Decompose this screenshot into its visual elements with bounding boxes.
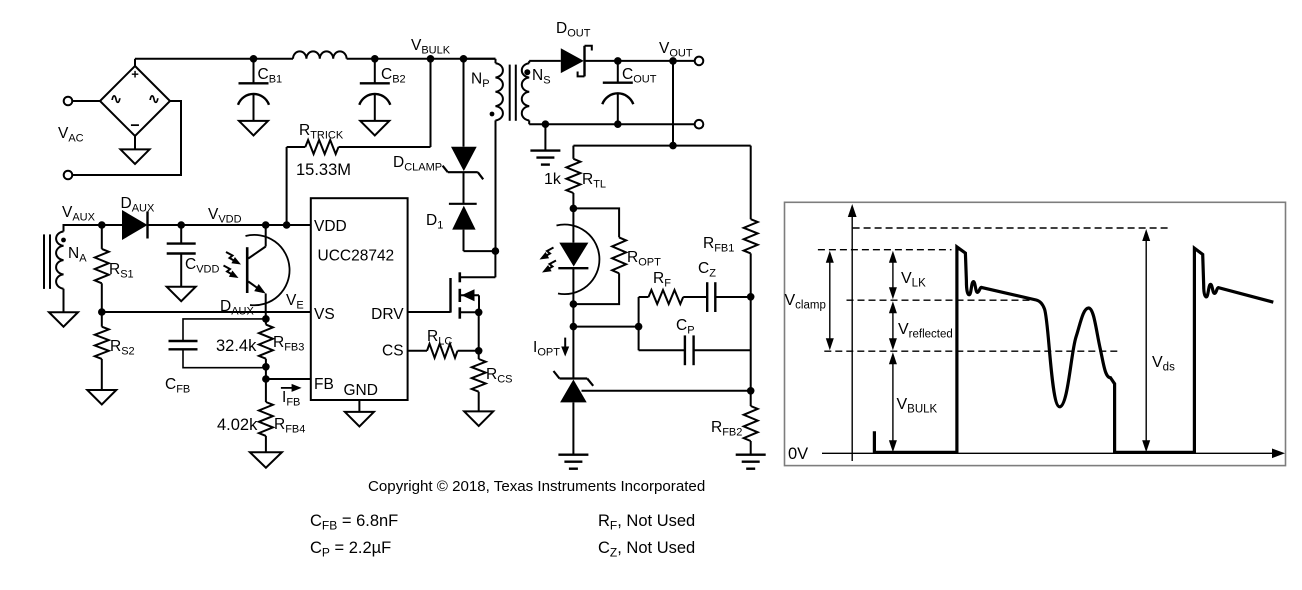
resistor RFB1 [750,146,752,220]
resistor RS2 [101,312,103,327]
arrow IOPT [564,338,566,348]
earth ground shunt [558,454,588,456]
plot x axis [822,452,1273,454]
optocoupler LED DOPT [572,208,574,242]
secondary winding NS [522,63,529,120]
dashed line bulk level [824,350,1118,352]
IC U1 UCC28742 [311,198,408,400]
node VBULK [427,55,435,63]
wire VS rail [102,311,311,313]
aux winding NA [56,232,63,289]
bridge rectifier BR1 [100,66,170,136]
node opto to compensation [570,323,578,331]
phase dot NA [61,238,66,243]
node collector [262,221,270,229]
ground RS2 [87,390,116,405]
wire top rail right [347,58,496,60]
svg-text:FB: FB [314,376,334,393]
aux core [43,234,45,289]
ground GND pin [358,400,360,412]
wire NS top to DOUT [529,60,561,62]
terminal VAC top [64,97,73,106]
ground CB1 [239,121,268,135]
node compensation left [635,323,643,331]
wire VAUX rail [102,224,122,226]
node REF junction [747,387,755,395]
svg-text:1k: 1k [544,171,562,188]
arrow Vclamp [829,259,831,343]
resistor RFB4 [265,379,267,402]
svg-text:CS: CS [382,343,404,360]
wire top rail left [135,58,293,60]
wire bridge to rail [134,59,136,66]
node feedback rail [669,142,677,150]
phototransistor QOPT [265,225,267,247]
node RTL bottom [570,205,578,213]
wire DCLAMP to D1 [463,172,465,204]
wire VOUT down [672,61,674,146]
phototransistor arc [246,235,290,305]
resistor RFB3 [265,319,267,325]
node CZ junction [747,293,755,301]
capacitor CP [639,349,685,351]
capacitor CB2 [371,55,379,63]
wire REF to divider [582,390,751,392]
ground RFB4 [250,452,282,468]
svg-text:0V: 0V [788,445,808,463]
capacitor CB1 [250,55,258,63]
light arrows into QOPT [226,252,237,262]
svg-text:−: − [130,118,139,135]
arrow IFB [281,387,293,389]
diode DAUX [122,210,148,240]
arrow Vds [1145,237,1147,444]
wire RTRICK to VDD rail [286,147,288,225]
optocoupler LED arc [557,225,600,295]
svg-text:15.33M: 15.33M [296,161,351,179]
ground NA [49,312,78,327]
plot y axis [851,216,853,461]
zener DCLAMP [451,147,477,171]
ground RCS [464,411,493,426]
node source [475,309,483,317]
arrow VBULK [892,360,894,444]
resistor RTRICK [287,146,306,148]
earth ground RFB2 [736,454,766,456]
svg-text:4.02k: 4.02k [217,416,258,434]
svg-text:Copyright © 2018, Texas Instru: Copyright © 2018, Texas Instruments Inco… [368,478,705,495]
dashed line reflected level [847,299,1039,301]
wire FB rail [266,378,311,380]
phase dot NS [524,69,530,75]
optocoupler LED emission arrows [543,248,554,258]
svg-text:∿: ∿ [110,91,122,107]
svg-text:VS: VS [314,306,335,323]
svg-text:VDD: VDD [314,218,347,235]
svg-text:DRV: DRV [371,306,404,323]
ground CB2 [360,121,389,135]
wire D1 to drain node [463,230,465,252]
capacitor CZ [706,282,708,312]
svg-text:∿: ∿ [148,91,160,107]
node secondary ground [542,120,550,128]
terminal VAC bottom [64,171,73,180]
arrow Vreflected [892,309,894,342]
plot panel box [785,202,1286,465]
dashed line Vds peak [853,227,1169,229]
svg-text:32.4k: 32.4k [216,337,257,355]
node RTRICK junction [283,221,291,229]
diode D1 [449,203,477,205]
node drain junction [492,247,500,255]
terminal VOUT [695,57,704,66]
ground CVDD [167,287,196,302]
shunt regulator VREF (TL431) [560,377,588,379]
phase dot NP [490,112,495,117]
inductor L1 (EMI filter) [293,51,347,58]
resistor ROPT branch [573,208,619,237]
wire DOUT to VOUT [585,60,695,62]
waveform Vds trace [874,247,1273,452]
node CFB top [262,315,270,323]
ground below bridge [134,136,136,149]
node COUT bottom [614,120,622,128]
dashed line Vclamp level [818,249,952,251]
node RS1 top [98,221,106,229]
node FB junction [262,375,270,383]
resistor RF [639,296,649,298]
arrow VLK [892,259,894,292]
svg-text:UCC28742: UCC28742 [318,247,395,264]
node VOUT [669,57,677,65]
node CFB bottom [262,363,270,371]
capacitor COUT [614,57,622,65]
wire DAUX to VDD pin [148,224,311,226]
node LED cathode [570,300,578,308]
wire compensation branch [573,326,638,328]
earth ground secondary [530,149,560,151]
svg-text:GND: GND [344,382,378,399]
secondary return wire [529,123,694,125]
wire feedback rail [573,145,750,147]
resistor RLC [408,350,427,352]
terminal return [695,120,704,129]
primary winding NP [464,58,496,60]
resistor RFB2 [750,391,752,406]
wire clamp [463,59,465,147]
wire DRV to gate [408,311,451,313]
mosfet Q1 [449,278,451,313]
node RS1 bottom [98,308,106,316]
resistor RS1 [101,225,103,249]
node CS [475,347,483,355]
resistor RCS [478,351,480,359]
node clamp top [460,55,468,63]
wire shunt anode [572,402,574,454]
resistor RTL [572,146,574,159]
capacitor CVDD [177,221,185,229]
diode DOUT schottky [561,48,584,73]
svg-text:+: + [131,67,139,82]
transformer core [509,65,511,121]
wire VBULK down to RTRICK [430,59,432,147]
capacitor CFB [183,319,266,341]
